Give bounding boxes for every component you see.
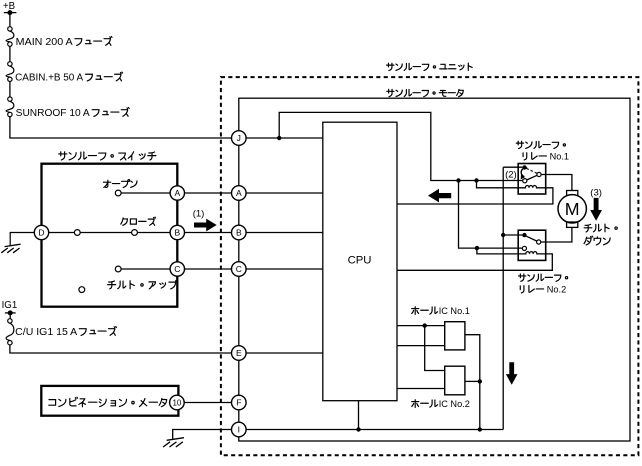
svg-text:No.1: No.1 (550, 152, 569, 162)
svg-text:MAIN 200 A: MAIN 200 A (16, 37, 74, 48)
svg-text:CABIN.+B 50 A: CABIN.+B 50 A (15, 73, 84, 84)
svg-text:C: C (174, 264, 180, 274)
svg-text:(2): (2) (505, 169, 517, 180)
svg-text:A: A (236, 188, 242, 198)
svg-text:SUNROOF 10 A: SUNROOF 10 A (16, 108, 91, 119)
svg-text:IC No.1: IC No.1 (439, 306, 470, 316)
svg-text:IC No.2: IC No.2 (439, 399, 470, 409)
svg-text:E: E (236, 348, 242, 358)
svg-text:F: F (236, 398, 241, 408)
svg-text:A: A (174, 188, 180, 198)
svg-text:IG1: IG1 (2, 300, 18, 311)
svg-text:No.2: No.2 (547, 285, 566, 295)
svg-text:M: M (565, 199, 580, 219)
svg-text:(1): (1) (193, 208, 205, 219)
svg-text:C: C (236, 264, 242, 274)
svg-text:(3): (3) (590, 187, 602, 198)
svg-text:J: J (237, 133, 241, 143)
svg-text:B: B (174, 228, 180, 238)
svg-text:D: D (38, 228, 44, 238)
svg-text:I: I (238, 425, 240, 435)
svg-text:10: 10 (172, 398, 181, 407)
svg-text:B: B (236, 228, 242, 238)
svg-text:CPU: CPU (348, 254, 372, 266)
svg-text:C/U IG1 15 A: C/U IG1 15 A (15, 327, 78, 338)
